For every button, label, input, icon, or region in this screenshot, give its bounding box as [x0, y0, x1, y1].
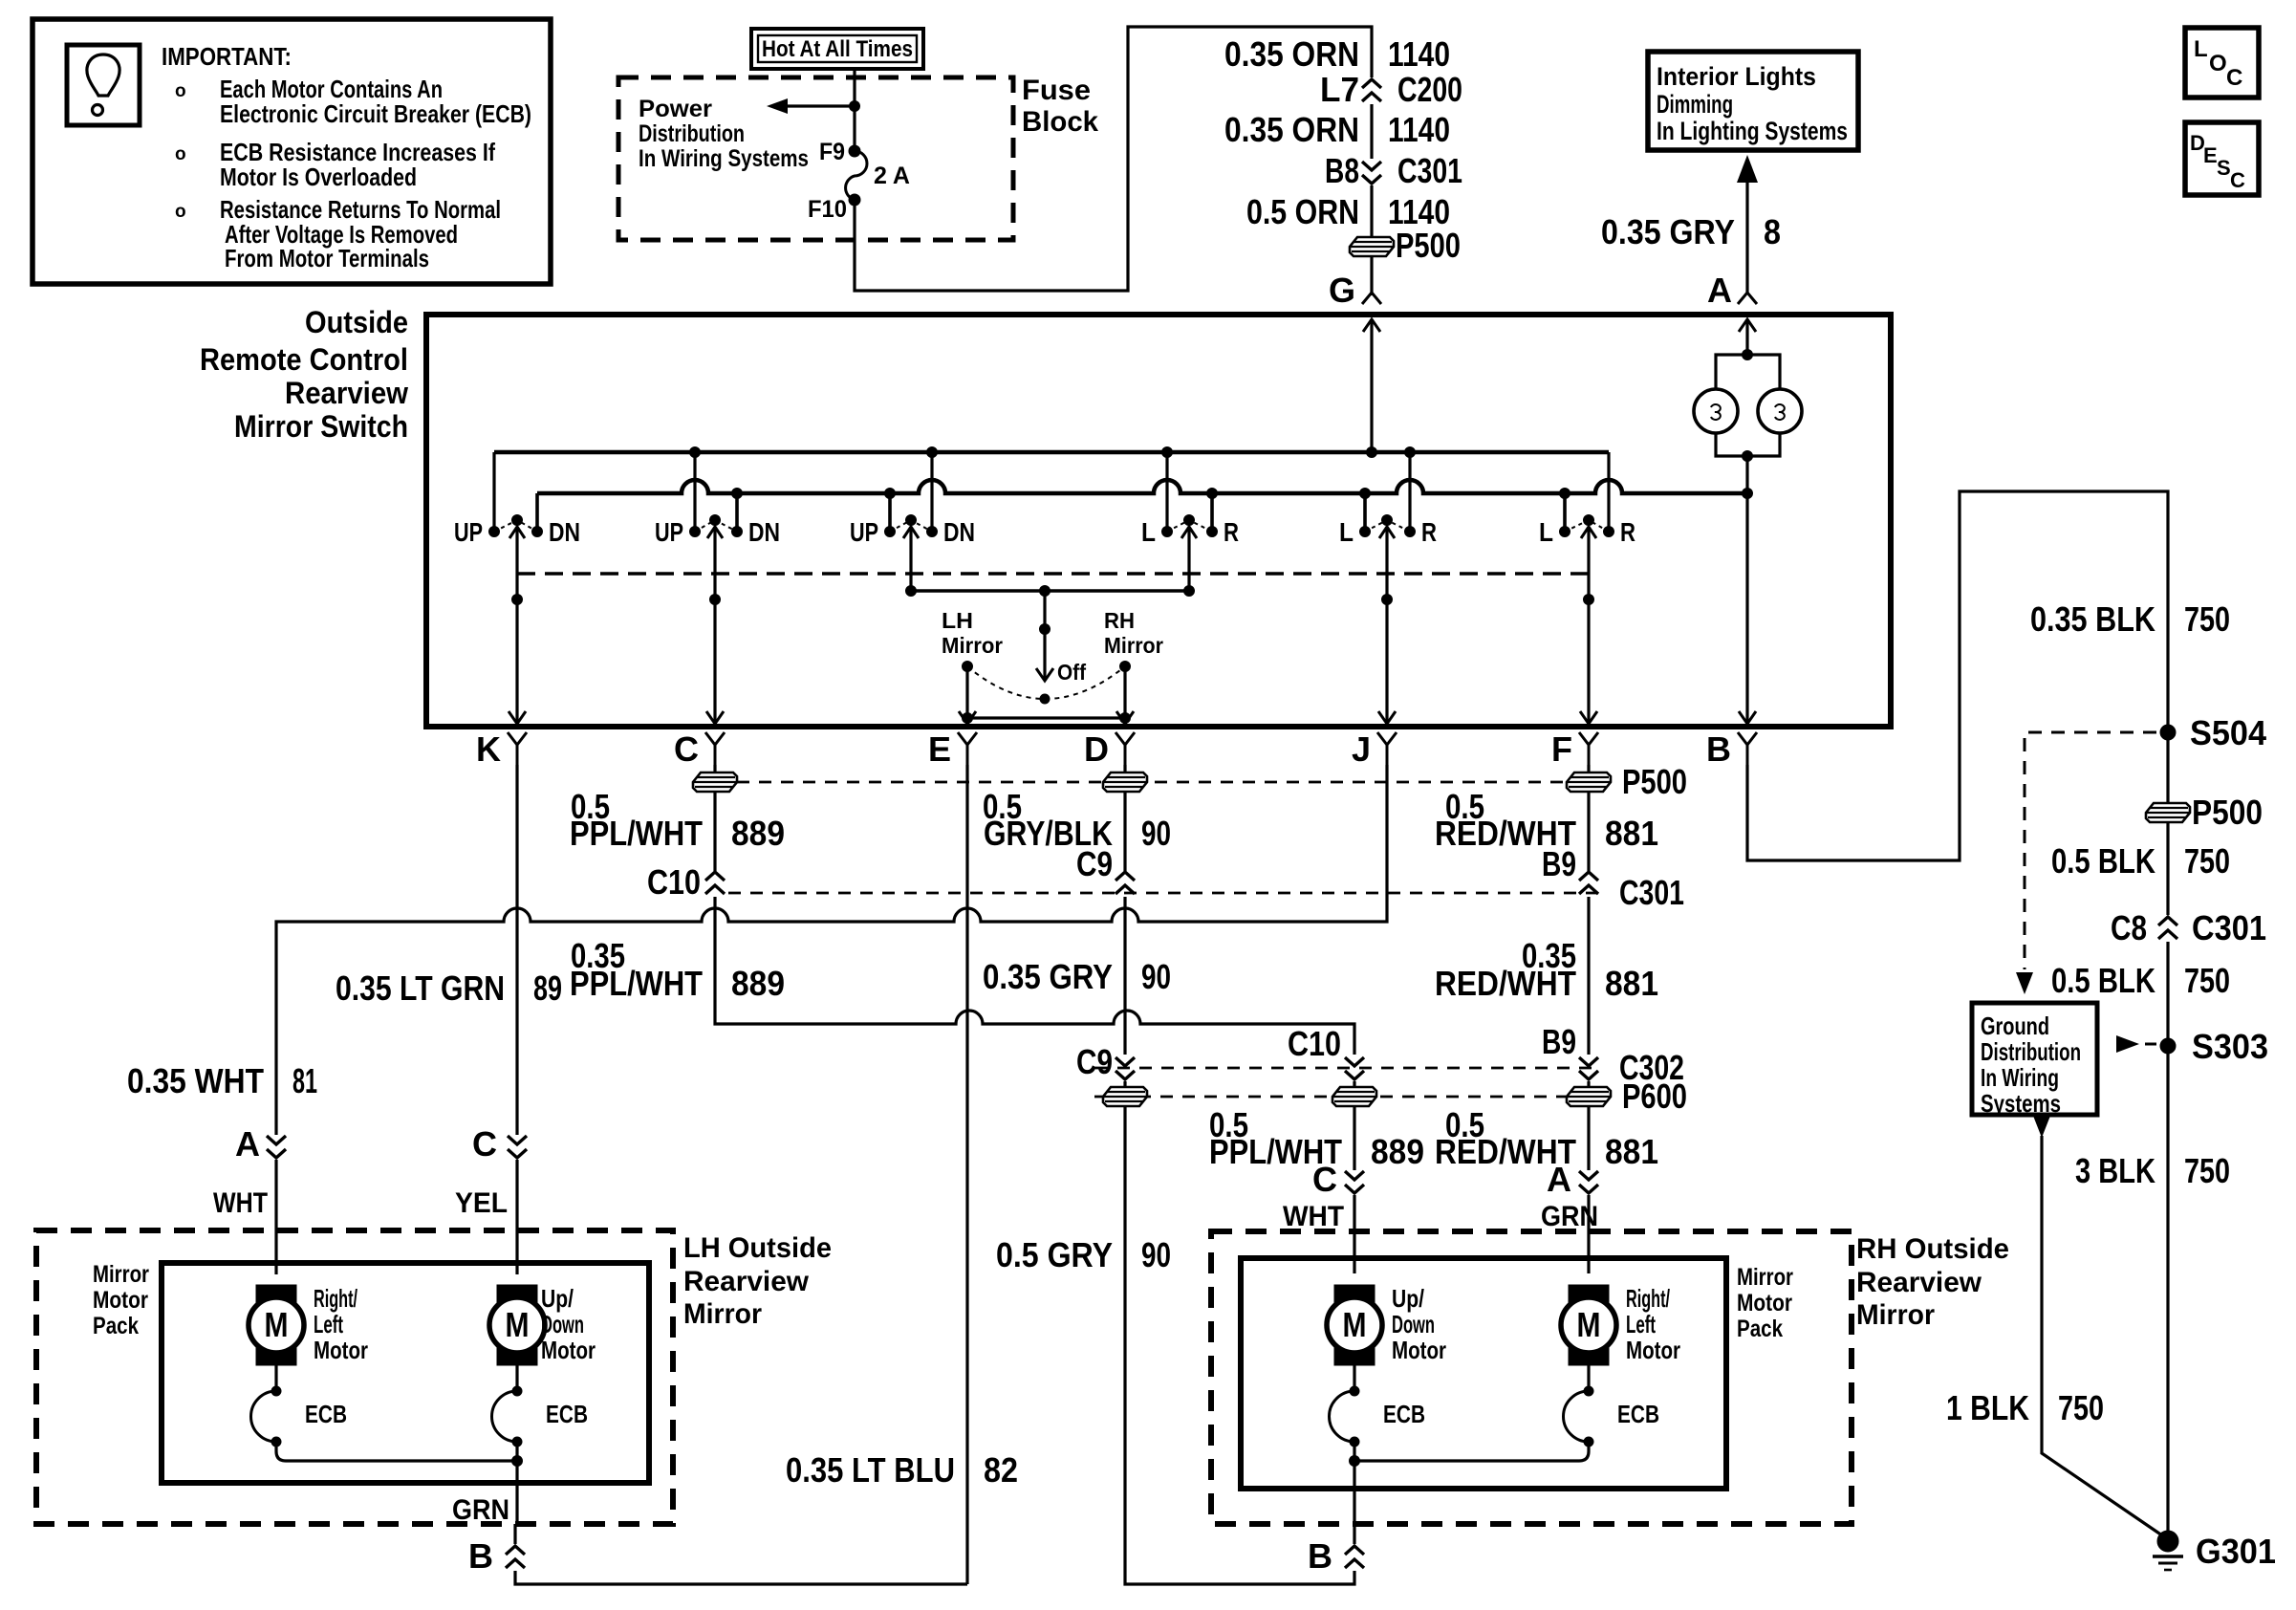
svg-text:In Lighting Systems: In Lighting Systems [1657, 117, 1848, 145]
wire E to LH pin B (0.35 LT BLU 82) [515, 1450, 1018, 1584]
RH mirror pin A [1541, 1160, 1598, 1273]
svg-text:Motor Is Overloaded: Motor Is Overloaded [220, 163, 417, 191]
LH right/left motor M [249, 1284, 368, 1365]
svg-text:Distribution: Distribution [639, 120, 745, 147]
RH mirror pin C [1283, 1160, 1364, 1273]
interior lights dimming box [1648, 52, 1858, 150]
svg-text:Mirror: Mirror [1104, 633, 1163, 658]
svg-text:0.35 GRY: 0.35 GRY [983, 957, 1113, 996]
svg-text:Dimming: Dimming [1657, 90, 1733, 119]
svg-text:Pack: Pack [93, 1313, 139, 1339]
LH up/down motor M [489, 1284, 596, 1365]
svg-text:C: C [2226, 65, 2242, 91]
wire C leg upper [570, 765, 785, 871]
svg-text:E: E [928, 729, 951, 769]
svg-text:Up/: Up/ [541, 1284, 574, 1313]
svg-text:0.5 GRY: 0.5 GRY [996, 1235, 1113, 1274]
svg-text:881: 881 [1605, 964, 1658, 1003]
svg-text:DN: DN [748, 517, 780, 547]
svg-text:881: 881 [1605, 1132, 1658, 1171]
svg-text:Mirror: Mirror [1737, 1264, 1793, 1291]
svg-text:B: B [1706, 729, 1731, 769]
svg-text:YEL: YEL [455, 1187, 508, 1219]
svg-text:M: M [1343, 1305, 1367, 1344]
switch pole 6 RH left/right [1539, 452, 1635, 547]
svg-text:Pack: Pack [1737, 1316, 1783, 1342]
svg-text:Motor: Motor [314, 1336, 368, 1364]
RH up/down motor M [1327, 1284, 1446, 1365]
selector off leg [1036, 591, 1086, 704]
wire D leg mid [983, 897, 1171, 1081]
svg-text:2 A: 2 A [874, 163, 910, 189]
svg-text:Left: Left [314, 1310, 343, 1338]
svg-text:Mirror: Mirror [1856, 1299, 1935, 1331]
svg-text:Mirror: Mirror [942, 633, 1003, 658]
svg-text:R: R [1224, 517, 1239, 547]
connector C301 pin B8 [1325, 151, 1462, 190]
RH motor pack box [1241, 1258, 1726, 1489]
svg-text:0.35 WHT: 0.35 WHT [127, 1061, 264, 1100]
svg-text:o: o [175, 81, 186, 101]
svg-text:C8: C8 [2111, 908, 2147, 947]
svg-text:B9: B9 [1542, 1022, 1576, 1061]
svg-text:D: D [1084, 729, 1109, 769]
power feed box "Hot At All Times" [751, 29, 923, 69]
svg-text:Fuse: Fuse [1022, 75, 1091, 106]
svg-text:3 BLK: 3 BLK [2075, 1151, 2155, 1190]
arrow to power distribution [767, 98, 855, 114]
wire K leg [515, 765, 518, 922]
svg-text:UP: UP [850, 517, 878, 547]
svg-text:LH: LH [942, 608, 973, 633]
svg-text:ECB: ECB [1383, 1400, 1425, 1428]
svg-text:RH: RH [1104, 608, 1135, 633]
wiper wire pole1 to pin K [509, 527, 526, 724]
pin C of switch [674, 729, 725, 769]
svg-text:881: 881 [1605, 814, 1658, 853]
wiper wire pole2 to pin C [706, 527, 724, 724]
selector common [906, 527, 1195, 597]
svg-text:DN: DN [943, 517, 975, 547]
svg-text:L: L [1141, 517, 1156, 547]
wire 0.5 BLK 750 (lower) [2051, 961, 2230, 1000]
RH motor common wire [1350, 1442, 1590, 1524]
svg-text:Down: Down [1392, 1310, 1435, 1338]
pin K of switch [476, 729, 527, 769]
LOC tag box [2185, 28, 2259, 98]
svg-text:C10: C10 [647, 862, 701, 902]
RH mirror label [1856, 1233, 2009, 1331]
pin E of switch [928, 729, 977, 769]
svg-text:0.35 ORN: 0.35 ORN [1224, 34, 1359, 74]
svg-text:Mirror Switch: Mirror Switch [234, 409, 408, 444]
pin D of switch [1084, 729, 1135, 769]
svg-text:F10: F10 [808, 196, 847, 223]
svg-text:R: R [1620, 517, 1635, 547]
switch pole 5 LH left/right [1339, 452, 1437, 547]
switch pole 2 RH up/down [655, 452, 780, 547]
connector C301 pin C8 [2111, 908, 2266, 1046]
svg-text:0.35 LT BLU: 0.35 LT BLU [786, 1450, 955, 1490]
svg-text:Remote Control: Remote Control [200, 342, 408, 377]
wire E leg [965, 765, 968, 1584]
pin F of switch [1551, 729, 1598, 769]
svg-text:P500: P500 [1396, 226, 1461, 265]
wire RH up/down feed (0.5 PPL/WHT 889) [1209, 1105, 1424, 1171]
connector P500 (ground) [2146, 740, 2263, 915]
LH mirror pin B [452, 1494, 525, 1576]
svg-text:J: J [1352, 729, 1371, 769]
pin A of switch [1707, 271, 1757, 355]
splice S504 [2160, 713, 2266, 752]
wiper wire pole6 to pin F [1580, 527, 1597, 724]
svg-text:ECB: ECB [305, 1400, 347, 1428]
svg-text:K: K [476, 729, 501, 769]
svg-text:C10: C10 [1288, 1024, 1341, 1063]
note text [162, 42, 531, 272]
svg-text:Down: Down [541, 1310, 584, 1338]
svg-text:750: 750 [2184, 599, 2230, 639]
svg-text:Outside: Outside [305, 305, 408, 339]
wire D to RH pin B (0.5 GRY 90) [996, 1106, 1354, 1584]
svg-text:WHT: WHT [213, 1187, 268, 1219]
svg-text:L: L [2194, 36, 2208, 62]
svg-text:8: 8 [1764, 212, 1781, 251]
svg-text:IMPORTANT:: IMPORTANT: [162, 42, 292, 71]
svg-text:Rearview: Rearview [683, 1266, 810, 1297]
svg-text:0.35 LT GRN: 0.35 LT GRN [336, 968, 505, 1008]
switch title [200, 305, 408, 444]
svg-text:GRN: GRN [1541, 1201, 1598, 1232]
svg-text:A: A [1707, 271, 1732, 310]
svg-text:Off: Off [1057, 660, 1086, 685]
svg-text:Left: Left [1626, 1310, 1656, 1338]
svg-text:E: E [2203, 143, 2218, 167]
svg-text:In Wiring: In Wiring [1981, 1063, 2059, 1092]
RH mirror motor pack label [1737, 1264, 1793, 1342]
connector C200 pin L7 [1320, 70, 1462, 109]
svg-text:C9: C9 [1076, 844, 1113, 883]
connector C302 (C9/C10/B9) [1095, 1048, 1684, 1087]
svg-text:Up/: Up/ [1392, 1284, 1424, 1313]
svg-text:L: L [1339, 517, 1354, 547]
wire 0.35 GRY 8 to dimming [1601, 155, 1781, 293]
svg-text:Mirror: Mirror [683, 1298, 762, 1330]
wire 0.5 ORN 1140 [1246, 185, 1450, 236]
RH mirror dashed box [1211, 1231, 1852, 1524]
selector RH contact [1104, 608, 1163, 724]
note icon [67, 45, 140, 125]
svg-text:Motor: Motor [541, 1336, 596, 1364]
splice S303 [2116, 1027, 2268, 1066]
svg-text:B: B [468, 1536, 493, 1576]
RH right/left motor M [1561, 1284, 1680, 1365]
svg-text:P500: P500 [2192, 793, 2263, 832]
svg-text:0.5 BLK: 0.5 BLK [2051, 961, 2155, 1000]
wire 1 BLK 750 [1946, 1116, 2162, 1535]
wire fuse output to orn riser [855, 27, 1372, 291]
svg-text:S504: S504 [2190, 713, 2266, 752]
svg-text:81: 81 [292, 1061, 317, 1100]
svg-text:1140: 1140 [1388, 34, 1450, 74]
wire F leg mid [1435, 897, 1658, 1061]
svg-text:B8: B8 [1325, 151, 1359, 190]
LH up/down ECB [492, 1365, 589, 1447]
svg-text:C301: C301 [1619, 873, 1684, 912]
wire C to RH pin C (0.35 PPL/WHT 889) [570, 897, 1354, 1063]
svg-text:1140: 1140 [1388, 110, 1450, 149]
wire J to LH pin A (0.35 WHT 81) [127, 765, 1387, 1135]
svg-text:o: o [175, 144, 186, 164]
RH right/left ECB [1564, 1365, 1659, 1447]
connector P600 (C9/C10/B9) [1094, 1077, 1687, 1116]
wire 0.35 ORN 1140 (upper) [1224, 34, 1450, 74]
svg-text:0.35 ORN: 0.35 ORN [1224, 110, 1359, 149]
svg-text:A: A [235, 1124, 260, 1164]
note box [32, 19, 551, 284]
svg-text:0.35 BLK: 0.35 BLK [2030, 599, 2155, 639]
svg-text:750: 750 [2058, 1388, 2104, 1427]
svg-text:B9: B9 [1542, 844, 1576, 883]
svg-text:Motor: Motor [93, 1287, 148, 1314]
connector P500 (orn riser) [1350, 226, 1461, 295]
svg-text:Ground: Ground [1981, 1012, 2049, 1040]
svg-text:889: 889 [1371, 1132, 1424, 1171]
RH mirror pin B [1308, 1524, 1364, 1576]
ground G301 [2153, 1531, 2276, 1571]
svg-text:750: 750 [2184, 961, 2230, 1000]
svg-text:DN: DN [549, 517, 580, 547]
svg-text:L7: L7 [1320, 70, 1359, 109]
svg-text:Block: Block [1022, 106, 1098, 138]
ground distribution box [1972, 1003, 2097, 1118]
connector P500 (pins C/D/F) [693, 762, 1687, 801]
switch pole 4 selector left/right [1141, 452, 1239, 547]
LH motor common wire [276, 1442, 523, 1524]
svg-text:C9: C9 [1076, 1042, 1113, 1081]
DESC tag box [2185, 122, 2259, 195]
wire B to ground chain (0.35 BLK 750) [1747, 491, 2230, 860]
svg-text:Hot At All Times: Hot At All Times [762, 36, 913, 62]
svg-text:Right/: Right/ [1626, 1284, 1670, 1313]
LH motor pack box [162, 1263, 649, 1483]
svg-text:P600: P600 [1622, 1077, 1687, 1116]
svg-text:750: 750 [2184, 1151, 2230, 1190]
LH mirror dashed box [36, 1230, 673, 1524]
svg-text:C: C [472, 1124, 497, 1164]
svg-text:A: A [1547, 1160, 1571, 1199]
svg-text:90: 90 [1141, 814, 1171, 853]
svg-text:G: G [1329, 271, 1355, 310]
svg-text:C301: C301 [2192, 908, 2266, 947]
svg-text:89: 89 [533, 968, 562, 1008]
selector outputs [959, 711, 1134, 724]
power distribution label [639, 96, 809, 172]
svg-text:F: F [1551, 729, 1572, 769]
svg-text:C: C [1312, 1160, 1337, 1199]
svg-text:M: M [265, 1305, 289, 1344]
illumination lamps [1694, 350, 1802, 494]
svg-text:M: M [506, 1305, 530, 1344]
svg-text:Mirror: Mirror [93, 1261, 149, 1288]
svg-text:UP: UP [655, 517, 683, 547]
LH mirror pin C [455, 1124, 527, 1274]
wire 0.35 ORN 1140 (mid) [1224, 104, 1450, 159]
connector C301 (C10/C9/B9) [647, 844, 1684, 912]
svg-text:WHT: WHT [1283, 1201, 1344, 1232]
svg-text:S303: S303 [2192, 1027, 2268, 1066]
svg-text:In Wiring Systems: In Wiring Systems [639, 145, 809, 172]
pin J of switch [1352, 729, 1397, 769]
svg-text:G301: G301 [2196, 1532, 2276, 1571]
pin G of switch [1329, 271, 1381, 452]
fuse block dashed box [618, 77, 1013, 240]
wire lamp return to pin B [1739, 493, 1756, 724]
wire 0.5 BLK 750 (upper) [2051, 841, 2230, 881]
svg-text:1 BLK: 1 BLK [1946, 1388, 2029, 1427]
svg-text:M: M [1577, 1305, 1601, 1344]
wire RH right/left feed (0.5 RED/WHT 881) [1435, 1105, 1658, 1171]
fuse F9/F10 2 A [808, 139, 910, 223]
svg-text:Rearview: Rearview [1856, 1267, 1982, 1298]
svg-text:Rearview: Rearview [285, 376, 408, 410]
svg-text:RED/WHT: RED/WHT [1435, 964, 1576, 1003]
svg-text:Power: Power [639, 96, 712, 122]
svg-text:889: 889 [731, 814, 785, 853]
mechanical linkage [517, 572, 1589, 576]
svg-text:C301: C301 [1397, 151, 1462, 190]
svg-text:B: B [1308, 1536, 1332, 1576]
svg-text:Distribution: Distribution [1981, 1037, 2081, 1066]
power bus [494, 447, 1609, 458]
RH up/down ECB [1330, 1365, 1426, 1447]
LH mirror pin A [213, 1124, 286, 1274]
svg-text:90: 90 [1141, 957, 1171, 996]
return bus [537, 480, 1753, 499]
svg-text:Right/: Right/ [314, 1284, 357, 1313]
svg-text:UP: UP [454, 517, 483, 547]
svg-text:P500: P500 [1622, 762, 1687, 801]
svg-text:889: 889 [731, 964, 785, 1003]
svg-text:LH Outside: LH Outside [683, 1232, 832, 1264]
svg-text:Motor: Motor [1392, 1336, 1446, 1364]
wiper wire pole5 to pin J [1378, 527, 1396, 724]
wire K to LH pin C (0.35 LT GRN 89) [336, 922, 562, 1135]
svg-text:S: S [2217, 156, 2231, 180]
outside remote control rearview mirror switch box [426, 315, 1891, 727]
svg-text:0.5 ORN: 0.5 ORN [1246, 192, 1359, 231]
svg-text:C: C [674, 729, 699, 769]
pin B of switch [1706, 729, 1757, 769]
wire 3 BLK 750 [2075, 1046, 2230, 1534]
svg-text:R: R [1421, 517, 1437, 547]
dashed branch to ground distribution [2016, 732, 2156, 994]
LH mirror label [683, 1232, 832, 1330]
svg-text:0.35 GRY: 0.35 GRY [1601, 212, 1735, 251]
svg-text:82: 82 [984, 1450, 1018, 1490]
svg-text:From Motor Terminals: From Motor Terminals [225, 244, 429, 272]
svg-text:Electronic Circuit Breaker (EC: Electronic Circuit Breaker (ECB) [220, 99, 531, 128]
selector LH contact [942, 608, 1003, 724]
svg-text:ECB: ECB [546, 1400, 588, 1428]
svg-text:Motor: Motor [1737, 1290, 1792, 1316]
fuse block label [1022, 75, 1098, 138]
svg-text:RH Outside: RH Outside [1856, 1233, 2009, 1265]
LH right/left ECB [251, 1365, 348, 1447]
svg-text:L: L [1539, 517, 1553, 547]
svg-text:o: o [175, 202, 186, 222]
wire F leg upper [1435, 765, 1658, 883]
switch pole 1 LH up/down [454, 452, 580, 547]
switch pole 3 selector up/down [850, 452, 975, 547]
svg-text:ECB: ECB [1617, 1400, 1659, 1428]
wire D leg upper [983, 765, 1171, 871]
svg-text:Motor: Motor [1626, 1336, 1680, 1364]
svg-text:PPL/WHT: PPL/WHT [570, 814, 703, 853]
svg-text:C: C [2230, 168, 2245, 192]
svg-text:Interior Lights: Interior Lights [1657, 62, 1816, 91]
wire battery feed [850, 69, 860, 151]
svg-text:PPL/WHT: PPL/WHT [570, 964, 703, 1003]
svg-text:F9: F9 [819, 139, 845, 165]
svg-text:O: O [2209, 51, 2227, 76]
selector wiper arc [967, 666, 1125, 699]
svg-text:C200: C200 [1397, 70, 1462, 109]
svg-text:90: 90 [1141, 1235, 1171, 1274]
LH mirror motor pack label [93, 1261, 149, 1339]
svg-text:750: 750 [2184, 841, 2230, 881]
svg-text:Systems: Systems [1981, 1089, 2061, 1118]
svg-text:0.5 BLK: 0.5 BLK [2051, 841, 2155, 881]
